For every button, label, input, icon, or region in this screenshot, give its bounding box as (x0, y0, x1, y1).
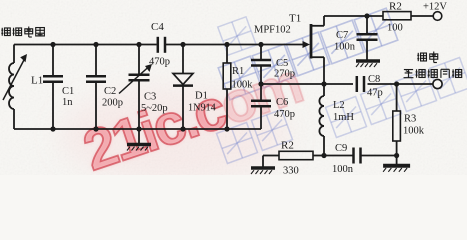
ground (tank, below C3) (127, 129, 151, 151)
resistor R2 100 (drain) (383, 1, 411, 34)
svg-text:100k: 100k (403, 126, 425, 137)
junction C7 top (364, 13, 369, 18)
junction L2 bottom (321, 153, 326, 158)
svg-text:R2: R2 (389, 1, 402, 13)
svg-text:100n: 100n (334, 42, 356, 53)
capacitor C8 47p (357, 74, 383, 99)
junction source/L2 (321, 81, 326, 86)
wire gate line from C4 to T1 gate (166, 44, 303, 46)
wire +12V rail (324, 15, 433, 17)
label: output (输出) (417, 52, 437, 63)
capacitor C7 100n (334, 16, 378, 60)
svg-text:1mH: 1mH (333, 112, 354, 123)
svg-text:C7: C7 (336, 30, 348, 41)
svg-text:100n: 100n (332, 164, 354, 175)
ground (below R3) (383, 156, 410, 172)
label: tuning inductor (调谐电感) (1, 27, 44, 38)
svg-text:C9: C9 (335, 143, 347, 154)
label: to buffer gate control (至缓冲门控) (404, 69, 462, 78)
terminal output (433, 79, 442, 88)
svg-text:MPF102: MPF102 (254, 25, 291, 36)
resistor R1 100k (223, 45, 253, 130)
junction R1 top (224, 42, 229, 47)
junction C1 top (50, 42, 55, 47)
svg-text:C3: C3 (144, 92, 156, 103)
diode D1 1N914 (173, 45, 216, 130)
svg-text:R2: R2 (281, 140, 294, 152)
wire top tank rail left of C4 (14, 44, 157, 46)
junction C5/C6 midpoint (258, 81, 263, 86)
svg-text:R1: R1 (232, 66, 244, 77)
junction R3 bottom (394, 153, 399, 158)
capacitor C1 1n (43, 45, 74, 130)
svg-text:1N914: 1N914 (188, 103, 216, 114)
inductor L2 1mH (319, 84, 354, 156)
svg-text:330: 330 (283, 166, 299, 176)
svg-text:1n: 1n (62, 97, 73, 108)
capacitor C2 200p (86, 45, 123, 130)
resistor R3 100k (393, 84, 425, 156)
junction D1 top (180, 42, 185, 47)
wire bottom tank rail (14, 128, 261, 130)
svg-text:470p: 470p (274, 109, 295, 120)
transistor T1 MPF102 (JFET) (254, 13, 324, 85)
terminal +12V (423, 2, 447, 21)
svg-text:+12V: +12V (423, 2, 447, 13)
wire bottom-right rail (324, 155, 397, 157)
svg-text:C4: C4 (151, 21, 164, 33)
svg-text:L1: L1 (31, 75, 43, 87)
svg-text:100: 100 (387, 23, 403, 34)
svg-text:L2: L2 (333, 100, 345, 111)
junction C5 top (258, 42, 263, 47)
junction C2 top (93, 42, 98, 47)
wire source/output line (261, 83, 433, 85)
svg-text:C2: C2 (104, 86, 116, 97)
svg-text:200p: 200p (102, 98, 123, 109)
svg-text:R3: R3 (404, 114, 416, 125)
svg-text:100k: 100k (232, 80, 254, 91)
svg-text:470p: 470p (149, 57, 170, 68)
ground (left of R2 330) (251, 156, 275, 175)
svg-text:D1: D1 (195, 91, 208, 102)
svg-text:C5: C5 (276, 58, 288, 69)
capacitor C9 100n (332, 143, 361, 175)
junction C3/ground (136, 126, 141, 131)
junction D1 bottom (180, 126, 185, 131)
ground (below C7) (356, 61, 380, 67)
svg-text:C6: C6 (276, 97, 288, 108)
junction C1 bottom (50, 126, 55, 131)
junction C2 bottom (93, 126, 98, 131)
inductor L1 (variable, with arrow) (3, 45, 43, 130)
capacitor C5 270p (251, 45, 295, 85)
junction C3 top (136, 42, 141, 47)
svg-text:C8: C8 (368, 74, 380, 85)
svg-text:5~20p: 5~20p (141, 103, 168, 114)
junction R1 bottom (224, 126, 229, 131)
variable capacitor C3 5~20p (119, 45, 168, 130)
junction R3 top/output (394, 81, 399, 86)
svg-text:C1: C1 (62, 86, 74, 97)
svg-text:270p: 270p (274, 69, 295, 80)
resistor R2 330 (source bias) (263, 140, 324, 177)
capacitor C6 470p (251, 84, 295, 129)
svg-text:T1: T1 (289, 13, 301, 25)
capacitor C4 470p (149, 21, 170, 68)
svg-text:47p: 47p (367, 88, 383, 99)
